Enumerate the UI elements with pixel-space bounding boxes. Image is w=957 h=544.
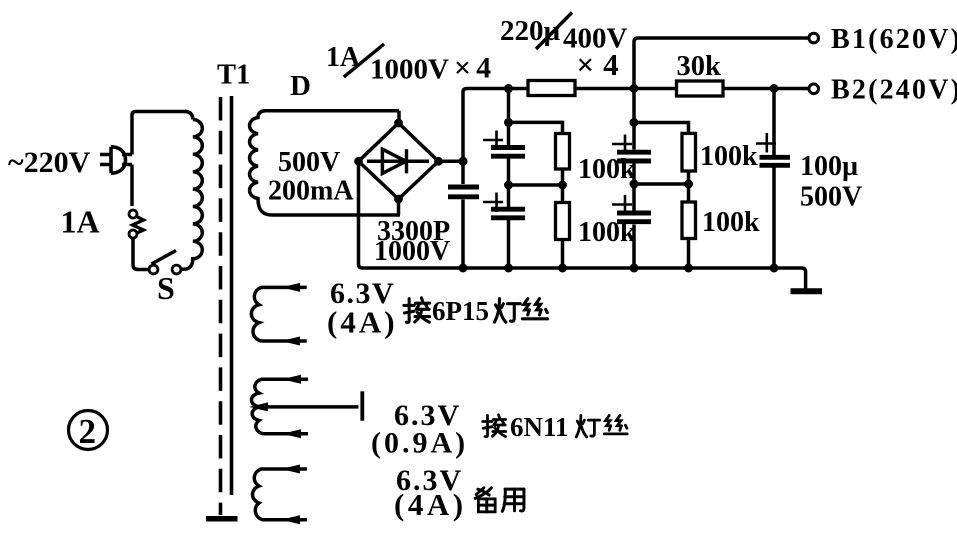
svg-text:×4: ×4 [577,47,628,82]
svg-text:T1: T1 [217,60,250,91]
svg-text:B2(240V): B2(240V) [831,75,957,106]
svg-text:100k: 100k [578,217,636,248]
svg-text:2: 2 [79,412,97,451]
svg-text:D: D [290,70,311,102]
svg-text:(0.9A): (0.9A) [371,427,468,460]
svg-text:B1(620V): B1(620V) [831,24,957,55]
svg-text:500V: 500V [278,147,340,178]
svg-text:100k: 100k [578,154,636,185]
svg-text:100k: 100k [702,207,760,238]
svg-text:1000V: 1000V [370,54,449,86]
svg-text:1A: 1A [61,204,100,240]
svg-text:500V: 500V [800,182,862,213]
svg-text:~220V: ~220V [8,146,91,179]
svg-text:1000V: 1000V [374,236,450,267]
svg-text:(4A): (4A) [394,487,467,522]
svg-text:S: S [157,270,175,306]
svg-text:100k: 100k [700,141,758,172]
svg-text:1A: 1A [326,42,361,73]
svg-text:×4: ×4 [454,52,496,85]
svg-text:6N11: 6N11 [510,412,569,442]
svg-text:200mA: 200mA [268,176,354,207]
svg-text:30k: 30k [677,51,722,82]
svg-text:(4A): (4A) [327,305,398,340]
svg-text:6P15: 6P15 [432,296,489,326]
svg-text:100µ: 100µ [800,151,858,182]
svg-text:220µ: 220µ [500,15,561,47]
